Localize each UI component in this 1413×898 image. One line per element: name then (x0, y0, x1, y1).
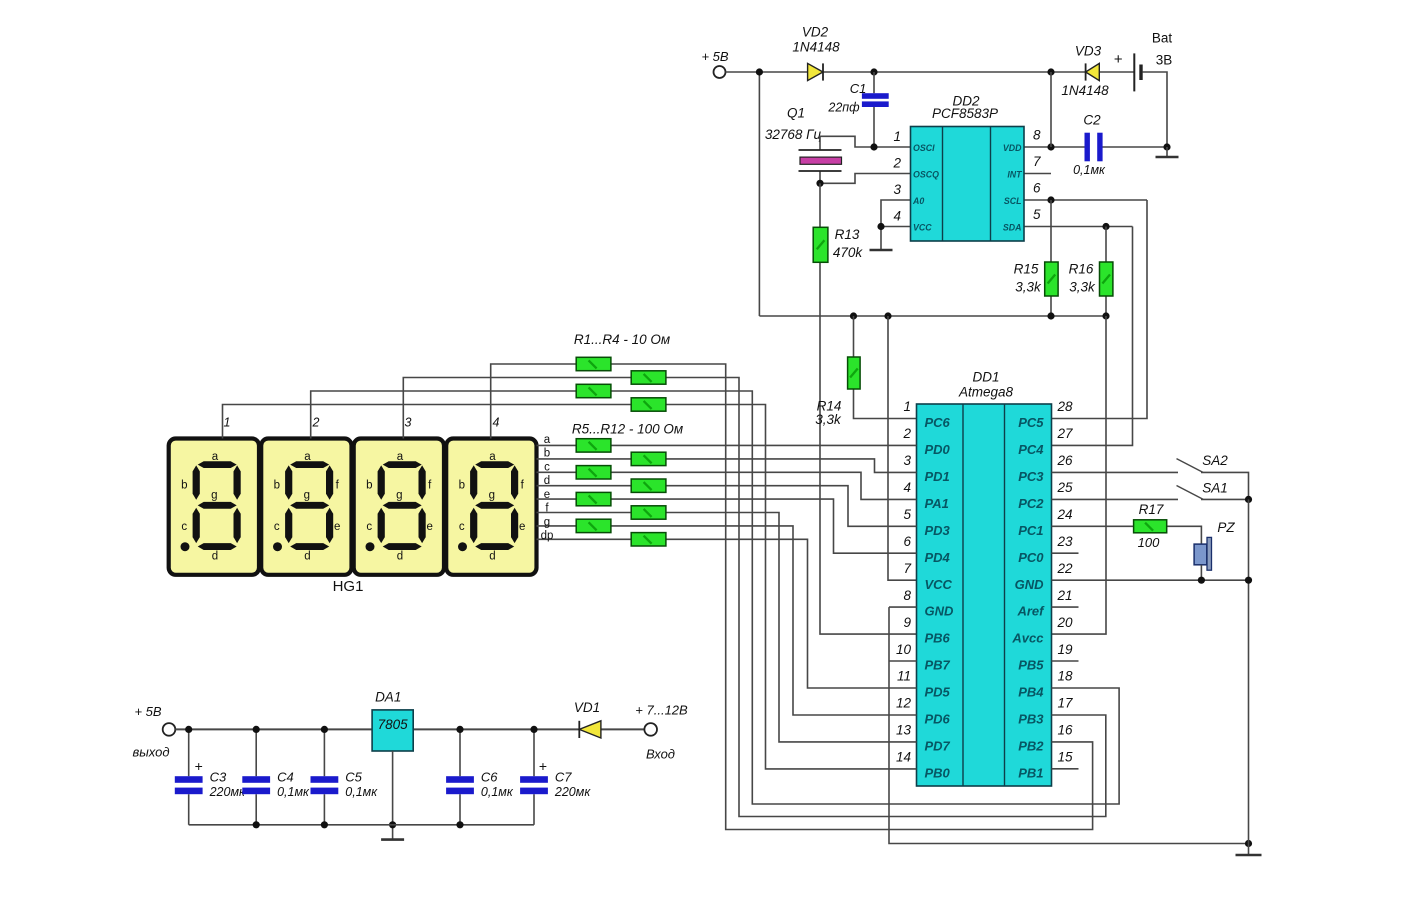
svg-text:25: 25 (1057, 480, 1074, 495)
wire pin21 stub (1052, 606, 1079, 608)
svg-text:+ 5В: + 5В (134, 704, 161, 719)
svg-text:7805: 7805 (378, 717, 409, 732)
svg-text:R16: R16 (1069, 262, 1094, 277)
svg-text:GND: GND (925, 604, 955, 619)
svg-text:7: 7 (1033, 154, 1041, 169)
svg-text:C1: C1 (850, 81, 867, 96)
svg-text:e: e (519, 521, 525, 533)
junction (456, 821, 463, 828)
svg-text:PD5: PD5 (925, 685, 951, 700)
svg-text:5: 5 (903, 507, 911, 522)
svg-text:b: b (181, 479, 187, 491)
svg-text:e: e (334, 521, 340, 533)
wire GND pin8 to bottom rail (889, 607, 1249, 843)
capacitor C5 (311, 776, 339, 794)
junction (870, 143, 877, 150)
wire R17 to PZ (1167, 526, 1202, 544)
resistor R9 (576, 492, 611, 505)
resistor R11 (576, 519, 611, 532)
svg-text:PB1: PB1 (1018, 765, 1043, 780)
svg-text:R13: R13 (835, 227, 860, 242)
svg-text:R1...R4 - 10 Ом: R1...R4 - 10 Ом (574, 332, 670, 347)
resistor R3 (576, 384, 611, 397)
svg-text:C5: C5 (345, 770, 362, 785)
resistor R2 (631, 371, 666, 384)
wire SDA pin5 (1024, 226, 1133, 228)
svg-text:28: 28 (1057, 399, 1074, 414)
wire segment f to PD7 pin13 (537, 513, 917, 742)
svg-text:2: 2 (312, 415, 320, 429)
svg-text:PB5: PB5 (1018, 658, 1044, 673)
svg-text:+: + (539, 758, 547, 774)
svg-text:16: 16 (1058, 723, 1074, 738)
svg-text:24: 24 (1057, 507, 1073, 522)
svg-text:220мк: 220мк (554, 785, 591, 799)
wire rail to C7 (533, 729, 535, 776)
resistor R6 (631, 452, 666, 465)
wire C7 to ground rail (533, 794, 535, 825)
wire C3 to ground rail (188, 794, 190, 825)
svg-text:22: 22 (1057, 561, 1074, 576)
wire R16 to bus (1105, 296, 1107, 316)
wire to bottom ground (1248, 844, 1250, 856)
wire +5V down to bus (758, 72, 760, 316)
diode VD3 (1086, 63, 1100, 80)
wire ground rail bottom (189, 824, 534, 826)
svg-text:3,3k: 3,3k (815, 412, 842, 427)
junction (321, 726, 328, 733)
svg-text:PC4: PC4 (1018, 442, 1044, 457)
svg-text:PB0: PB0 (925, 765, 951, 780)
svg-text:PC3: PC3 (1018, 469, 1044, 484)
resistor R13 (813, 227, 828, 262)
svg-text:PD4: PD4 (925, 550, 951, 565)
svg-text:7: 7 (903, 561, 911, 576)
junction (870, 68, 877, 75)
svg-text:3: 3 (893, 182, 901, 197)
svg-text:DD1: DD1 (972, 370, 999, 385)
svg-text:a: a (489, 451, 496, 463)
wire segment d to PD3 pin5 (537, 486, 917, 527)
svg-text:1: 1 (903, 399, 911, 414)
junction (389, 821, 396, 828)
svg-text:+ 5В: + 5В (701, 49, 728, 64)
diode VD1 (579, 721, 601, 738)
resistor R14 (848, 357, 861, 389)
wire VDD pin8 to C2 (1024, 146, 1085, 148)
wire VD3 to battery (1099, 71, 1133, 73)
ground DA1 (381, 838, 404, 841)
svg-text:+: + (195, 758, 203, 774)
svg-text:g: g (304, 490, 310, 502)
svg-text:21: 21 (1057, 588, 1073, 603)
svg-text:Вход: Вход (646, 747, 675, 762)
wire crystal to OSCO pin2 (820, 174, 911, 184)
junction (456, 726, 463, 733)
wire +5V rail left (175, 728, 372, 730)
svg-text:9: 9 (903, 615, 911, 630)
wire VCC pin4 (881, 226, 911, 228)
svg-text:c: c (544, 461, 550, 473)
svg-text:22пф: 22пф (827, 100, 860, 114)
svg-text:0,1мк: 0,1мк (277, 785, 310, 799)
resistor R8 (631, 479, 666, 492)
svg-text:C2: C2 (1083, 113, 1101, 128)
svg-text:20: 20 (1057, 615, 1074, 630)
svg-text:2: 2 (902, 426, 911, 441)
svg-text:a: a (397, 451, 404, 463)
junction (1198, 577, 1205, 584)
svg-text:3,3k: 3,3k (1015, 280, 1042, 295)
svg-text:c: c (274, 521, 280, 533)
wire rail to C6 (459, 729, 461, 776)
wire crystal node through R13 to PB6 pin9 (820, 183, 917, 634)
svg-text:Avcc: Avcc (1011, 631, 1044, 646)
resistor R17 (1134, 520, 1167, 533)
svg-text:C3: C3 (210, 770, 227, 785)
svg-text:PB2: PB2 (1018, 738, 1044, 753)
svg-text:32768 Гц: 32768 Гц (765, 127, 822, 142)
wire segment e to PD4 pin6 (537, 499, 917, 553)
svg-text:PB7: PB7 (925, 658, 951, 673)
svg-text:1: 1 (224, 415, 231, 429)
svg-text:DA1: DA1 (375, 689, 401, 704)
junction (253, 726, 260, 733)
svg-text:g: g (489, 490, 495, 502)
svg-text:27: 27 (1057, 426, 1074, 441)
wire bus to R14 (853, 316, 855, 357)
resistor R10 (631, 506, 666, 519)
wire pin19 stub (1052, 660, 1079, 662)
wire SA node to GND line (1248, 499, 1250, 580)
switch SA2 (1177, 459, 1204, 473)
wire rail to C5 (323, 729, 325, 776)
svg-text:PD1: PD1 (925, 469, 950, 484)
wire rail DA1 to VD1 (413, 728, 579, 730)
diode VD2 (808, 63, 823, 80)
svg-text:R17: R17 (1139, 502, 1164, 517)
wire SCL pin6 (1024, 199, 1147, 201)
svg-text:VCC: VCC (913, 223, 932, 233)
svg-text:C7: C7 (555, 770, 572, 785)
svg-text:PB3: PB3 (1018, 712, 1044, 727)
svg-text:11: 11 (897, 669, 911, 684)
wire PZ to GND line (1200, 565, 1202, 580)
svg-text:Bat: Bat (1152, 31, 1173, 46)
svg-text:15: 15 (1058, 750, 1074, 765)
svg-text:PC2: PC2 (1018, 496, 1044, 511)
svg-text:b: b (544, 447, 550, 459)
svg-text:g: g (396, 490, 402, 502)
svg-text:4: 4 (493, 415, 500, 429)
svg-text:3: 3 (405, 415, 412, 429)
svg-text:a: a (212, 451, 219, 463)
svg-text:VCC: VCC (925, 577, 953, 592)
ground battery (1156, 156, 1179, 159)
wire R1 to PB2 pin16 (611, 364, 1093, 830)
wire digit3 to R2 (403, 378, 631, 439)
junction (1102, 312, 1109, 319)
wire +5V bus (759, 315, 1106, 317)
svg-text:17: 17 (1058, 696, 1074, 711)
junction (756, 68, 763, 75)
svg-text:R14: R14 (817, 398, 842, 413)
svg-text:b: b (274, 479, 280, 491)
wire to C1 top (873, 72, 875, 93)
junction (1047, 196, 1054, 203)
crystal Q1 (799, 150, 842, 171)
svg-text:4: 4 (903, 480, 911, 495)
wire C4 to ground rail (255, 794, 257, 825)
svg-text:VDD: VDD (1003, 143, 1022, 153)
wire to VD3 (1051, 71, 1086, 73)
svg-text:R15: R15 (1014, 262, 1039, 277)
svg-text:PCF8583P: PCF8583P (932, 106, 998, 121)
svg-text:4: 4 (893, 209, 901, 224)
wire R3 to PB4 pin18 (611, 391, 1119, 804)
svg-text:8: 8 (1033, 128, 1041, 143)
svg-text:PB4: PB4 (1018, 685, 1044, 700)
junction (884, 312, 891, 319)
svg-text:SA2: SA2 (1202, 453, 1228, 468)
svg-text:5: 5 (1033, 207, 1041, 222)
junction (1047, 68, 1054, 75)
wire PC1 pin24 to R17 (1052, 525, 1134, 527)
switch SA1 (1177, 486, 1204, 500)
wire C1 node to VDD node (874, 71, 1051, 73)
svg-text:Atmega8: Atmega8 (958, 385, 1014, 400)
svg-text:3В: 3В (1156, 52, 1173, 67)
svg-text:C6: C6 (481, 770, 498, 785)
svg-text:d: d (212, 550, 218, 562)
svg-text:PC1: PC1 (1018, 523, 1043, 538)
wire VDD node vertical (1050, 72, 1052, 147)
svg-text:18: 18 (1058, 669, 1074, 684)
junction (321, 821, 328, 828)
svg-text:0,1мк: 0,1мк (345, 785, 378, 799)
wire VD2 to C1 node (823, 71, 874, 73)
junction (530, 726, 537, 733)
svg-text:PB6: PB6 (925, 631, 951, 646)
capacitor C1 (862, 93, 889, 107)
wire pin23 stub (1052, 552, 1079, 554)
wire SA2 to SA1 node (1201, 472, 1249, 499)
capacitor C3 (175, 776, 203, 794)
wire C2 to battery minus node (1103, 146, 1168, 148)
svg-text:SA1: SA1 (1202, 481, 1228, 496)
svg-text:Q1: Q1 (787, 106, 805, 121)
svg-text:23: 23 (1057, 534, 1074, 549)
svg-text:PD3: PD3 (925, 523, 951, 538)
svg-text:3: 3 (903, 453, 911, 468)
svg-text:INT: INT (1007, 170, 1022, 180)
svg-text:VD3: VD3 (1075, 44, 1102, 59)
display HG1 digit 1 (169, 439, 259, 575)
wire C5 to ground rail (323, 794, 325, 825)
svg-text:SDA: SDA (1003, 223, 1022, 233)
svg-text:1: 1 (893, 129, 901, 144)
svg-text:PC0: PC0 (1018, 550, 1044, 565)
wire +5V to VD2 (726, 71, 808, 73)
svg-text:12: 12 (896, 696, 912, 711)
capacitor C7 (520, 776, 548, 794)
svg-text:0,1мк: 0,1мк (481, 785, 514, 799)
wire segment dp to PD5 pin11 (537, 539, 917, 688)
resistor R12 (631, 533, 666, 546)
wire crystal top to OSCI pin1 (820, 136, 911, 150)
svg-text:HG1: HG1 (333, 578, 364, 595)
svg-text:Aref: Aref (1016, 604, 1045, 619)
wire R15 to bus (1050, 296, 1052, 316)
wire bus to VCC pin7 (888, 316, 917, 580)
wire R2 to PB3 pin17 (666, 378, 1106, 817)
svg-text:e: e (426, 521, 432, 533)
svg-text:1N4148: 1N4148 (1061, 83, 1109, 98)
svg-text:d: d (544, 475, 550, 487)
wire pin10 PB7 stub (890, 660, 917, 662)
svg-text:e: e (544, 489, 550, 501)
svg-text:g: g (211, 490, 217, 502)
junction (1245, 496, 1252, 503)
svg-text:8: 8 (903, 588, 911, 603)
svg-text:PD6: PD6 (925, 712, 951, 727)
op-amp DD2 PCF8583P chip body (911, 127, 1025, 242)
wire SDA to R16 (1105, 227, 1107, 263)
junction (185, 726, 192, 733)
capacitor C6 (446, 776, 474, 794)
wire rail to C4 (255, 729, 257, 776)
voltage regulator DA1 7805 (372, 710, 413, 751)
wire SCL to R15 (1050, 200, 1052, 262)
junction (877, 223, 884, 230)
wire crystal bottom (819, 171, 821, 183)
svg-text:6: 6 (1033, 181, 1041, 196)
wire PC2 pin25 to SA1 (1052, 498, 1179, 500)
svg-text:b: b (459, 479, 465, 491)
wire to ground battery (1166, 147, 1168, 157)
svg-text:OSCQ: OSCQ (913, 170, 939, 180)
wire GND pin8 stub (889, 606, 917, 608)
wire battery to C2 right node (1143, 72, 1167, 147)
display HG1 digit 4 (446, 439, 536, 575)
junction (850, 312, 857, 319)
battery Bat 3V (1134, 53, 1141, 91)
terminal +5V output bottom (163, 723, 176, 736)
svg-text:26: 26 (1057, 453, 1074, 468)
svg-text:PD0: PD0 (925, 442, 951, 457)
resistor R4 (631, 398, 666, 411)
svg-text:+ 7...12В: + 7...12В (635, 703, 688, 718)
svg-text:R5...R12 - 100 Ом: R5...R12 - 100 Ом (572, 422, 683, 437)
svg-text:13: 13 (896, 723, 912, 738)
wire GND pin22 line (1052, 579, 1249, 581)
svg-text:220мк: 220мк (209, 785, 246, 799)
svg-text:14: 14 (896, 750, 911, 765)
buzzer PZ (1194, 537, 1211, 570)
svg-text:100: 100 (1138, 535, 1160, 550)
wire INT pin7 stub (1024, 173, 1051, 175)
wire VD1 to input terminal (601, 728, 645, 730)
svg-text:PA1: PA1 (925, 496, 949, 511)
svg-text:C4: C4 (277, 770, 294, 785)
wire segment g to PD6 pin12 (537, 526, 917, 715)
junction (1047, 312, 1054, 319)
svg-text:c: c (181, 521, 187, 533)
wire R4 to PB0 pin14 (666, 405, 917, 769)
svg-text:6: 6 (903, 534, 911, 549)
wire pin15 stub (1052, 768, 1079, 770)
svg-text:d: d (304, 550, 310, 562)
wire SCL to PC5 pin28 (1052, 200, 1148, 419)
wire A0 pin3 to ground (881, 200, 911, 250)
resistor R5 (576, 439, 611, 452)
svg-text:VD1: VD1 (574, 700, 600, 715)
svg-text:470k: 470k (833, 245, 864, 260)
wire R14 to PC6 pin1 (854, 389, 917, 419)
resistor R7 (576, 466, 611, 479)
wire segment b to PD1 pin3 (537, 459, 917, 473)
svg-text:d: d (489, 550, 495, 562)
svg-text:PZ: PZ (1217, 520, 1235, 535)
svg-text:19: 19 (1058, 642, 1074, 657)
svg-text:3,3k: 3,3k (1069, 280, 1096, 295)
svg-text:g: g (544, 517, 550, 529)
wire digit4 to R1 (491, 364, 577, 439)
svg-text:VD2: VD2 (802, 25, 829, 40)
svg-text:b: b (366, 479, 372, 491)
ground bottom right (1236, 854, 1262, 857)
junction (1245, 840, 1252, 847)
svg-text:выход: выход (132, 745, 169, 760)
resistor R16 (1100, 262, 1113, 296)
resistor R1 (576, 357, 611, 370)
wire C1 to OSCI (873, 107, 875, 147)
svg-text:0,1мк: 0,1мк (1073, 163, 1106, 177)
capacitor C4 (242, 776, 270, 794)
wire rail to C3 (188, 729, 190, 776)
wire segment c to PA1 pin4 (537, 472, 917, 499)
junction (1102, 223, 1109, 230)
svg-text:+: + (1114, 51, 1123, 68)
display HG1 digit 2 (261, 439, 351, 575)
svg-text:c: c (366, 521, 372, 533)
svg-text:a: a (304, 451, 311, 463)
wire SDA to PC4 pin27 (1052, 227, 1133, 446)
wire C6 to ground rail (459, 794, 461, 825)
svg-text:GND: GND (1015, 577, 1045, 592)
wire bus to Avcc pin20 (1052, 316, 1107, 634)
resistor R15 (1045, 262, 1058, 296)
capacitor C2 (1085, 133, 1103, 162)
display HG1 digit 3 (354, 439, 444, 575)
wire GND line to bottom ground rail (1248, 580, 1250, 843)
wire DA1 ground (392, 751, 394, 840)
svg-text:PD7: PD7 (925, 738, 951, 753)
svg-text:1N4148: 1N4148 (792, 40, 840, 55)
wire segment a to PD0 pin2 (537, 444, 917, 446)
svg-text:A0: A0 (912, 196, 924, 206)
wire digit2 to R3 (311, 391, 577, 439)
junction (816, 180, 823, 187)
junction (1163, 143, 1170, 150)
junction (1245, 577, 1252, 584)
op-amp DD1 Atmega8 chip body (917, 404, 1052, 786)
svg-text:a: a (544, 434, 551, 446)
terminal +7..12V input (644, 723, 657, 736)
junction (1047, 143, 1054, 150)
svg-text:PC5: PC5 (1018, 415, 1044, 430)
svg-text:2: 2 (892, 156, 901, 171)
